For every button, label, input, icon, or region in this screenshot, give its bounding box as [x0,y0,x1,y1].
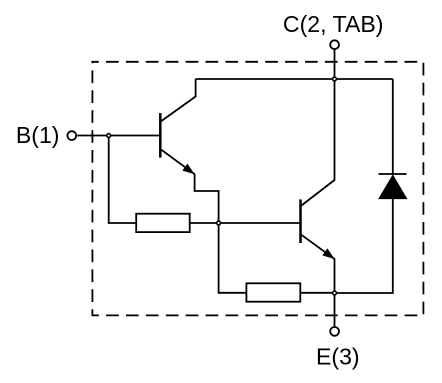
svg-text:B(1): B(1) [16,122,60,148]
svg-text:E(3): E(3) [316,344,360,370]
svg-text:C(2, TAB): C(2, TAB) [283,11,384,37]
